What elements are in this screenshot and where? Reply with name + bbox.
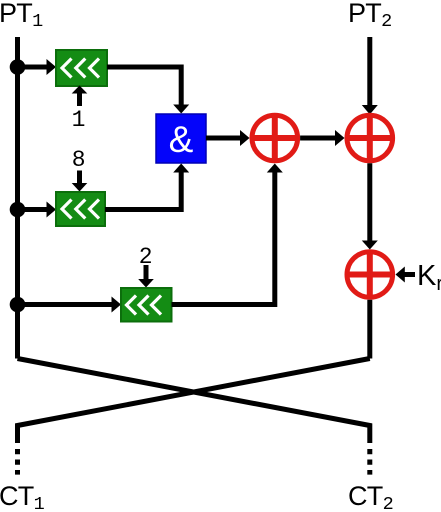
wire XOR X2 down to XOR X3 <box>367 163 372 241</box>
wire PT2 rail down <box>367 37 372 106</box>
svg-text:1: 1 <box>72 107 86 133</box>
arrowhead down into S2 top <box>72 183 88 192</box>
wire stub below S1 <box>77 93 82 106</box>
node junction dot 3 <box>10 297 26 313</box>
wire left rail from PT1 <box>15 37 20 359</box>
arrowhead Kr into XOR X3 right <box>396 267 405 283</box>
wire XOR X1 to XOR X2 <box>300 136 336 141</box>
wire AND box to XOR X1 <box>206 136 241 141</box>
arrowhead up into S1 bottom <box>72 86 88 94</box>
wire dotted continuation right <box>367 449 372 475</box>
svg-text:8: 8 <box>72 147 86 173</box>
arrowhead up into AND box bottom <box>173 164 189 173</box>
wire stub below 8 <box>77 171 82 184</box>
wire stub below 2 <box>144 265 149 279</box>
wire S2 output to AND box bottom <box>105 172 181 210</box>
arrowhead down into S3 top <box>138 279 154 288</box>
shift box S3 (<<< by 2) <box>121 288 172 322</box>
wire dot2 to shift box S2 <box>18 207 48 212</box>
arrowhead up into XOR X1 bottom <box>267 164 283 173</box>
wire S3 output up to XOR X1 bottom <box>172 172 275 305</box>
wire swap diagonal left-to-right <box>18 359 370 444</box>
shift box S2 (<<< by 8) <box>56 192 105 226</box>
arrowhead into AND box top <box>173 105 189 114</box>
AND box U1 <box>156 114 206 163</box>
arrowhead into XOR X1 left <box>240 130 250 146</box>
wire Kr stub <box>404 272 415 277</box>
arrowhead into XOR X2 left <box>335 130 345 146</box>
arrowhead PT2 into XOR X2 <box>362 105 378 115</box>
XOR X1 <box>250 114 299 163</box>
node junction dot 1 <box>10 59 26 75</box>
XOR X3 (key addition) <box>345 250 394 299</box>
node junction dot 2 <box>10 202 26 218</box>
XOR X2 <box>345 114 394 163</box>
svg-text:&: & <box>169 119 194 160</box>
wire dot3 to shift box S3 <box>18 302 113 307</box>
arrowhead into shift box S1 <box>47 59 57 75</box>
arrowhead into shift box S3 <box>112 297 122 313</box>
wire dot1 to shift box S1 <box>18 65 48 70</box>
wire dotted continuation left <box>15 449 20 475</box>
wire S1 output to AND box <box>107 67 181 105</box>
wire XOR X3 down to swap <box>367 300 372 359</box>
arrowhead into XOR X3 top <box>362 241 378 250</box>
shift box S1 (<<< by 1) <box>56 50 107 86</box>
wire swap diagonal right-to-left <box>18 359 370 444</box>
arrowhead into shift box S2 <box>47 202 57 218</box>
